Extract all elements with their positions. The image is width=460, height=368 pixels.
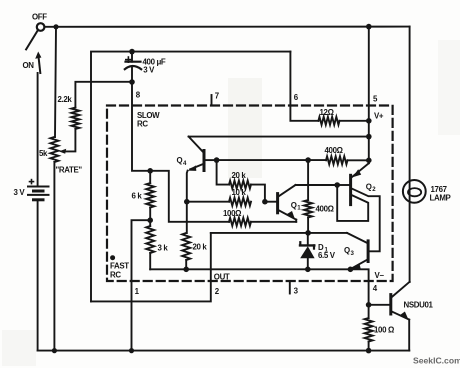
svg-text:FAST: FAST xyxy=(110,262,129,271)
wire pin8 line xyxy=(132,82,150,171)
svg-text:NSDU01: NSDU01 xyxy=(404,301,434,310)
transistor Q3 xyxy=(367,241,370,262)
wire Q4 base to 20k xyxy=(217,160,229,185)
svg-text:100 Ω: 100 Ω xyxy=(374,326,394,335)
transistor Q2 xyxy=(349,175,352,204)
node Q2 emitter xyxy=(366,158,372,164)
transistor Q4 xyxy=(203,151,206,171)
node Q4 base xyxy=(214,157,220,163)
resistor 20k horizontal xyxy=(229,181,251,189)
node Q3 emitter xyxy=(348,267,354,273)
node pin5 top rail xyxy=(366,24,372,30)
node 5k bottom rail xyxy=(52,348,57,353)
wire right column (lamp feed) xyxy=(409,27,411,282)
svg-text:20 k: 20 k xyxy=(193,243,208,252)
svg-text:12Ω: 12Ω xyxy=(320,108,334,117)
wire inner top rail xyxy=(189,136,369,138)
pin 3 stub xyxy=(289,281,291,294)
svg-text:6 k: 6 k xyxy=(132,192,143,201)
IC dashed box xyxy=(107,106,393,282)
label FAST RC xyxy=(110,255,115,260)
node D1 bottom xyxy=(305,267,311,273)
switch S1 xyxy=(37,23,45,31)
svg-text:V−: V− xyxy=(375,271,385,280)
wire junction to 5k pot xyxy=(55,27,56,137)
wire 5k bottom to rail xyxy=(53,162,55,351)
resistor 400ohm vertical xyxy=(304,200,312,218)
svg-text:400Ω: 400Ω xyxy=(325,146,343,155)
wire Q2 collector2 loop to base xyxy=(337,185,368,221)
transistor Q1 xyxy=(276,194,279,213)
svg-text:400Ω: 400Ω xyxy=(316,205,334,214)
wire pin6 line xyxy=(290,52,318,121)
wire Q2 collector1 to Q3 base xyxy=(351,188,380,251)
node pin1 rail xyxy=(129,348,134,353)
svg-text:3 V: 3 V xyxy=(14,188,26,197)
node 10k left xyxy=(184,199,190,205)
node 400ohm top xyxy=(305,157,311,163)
lamp 1767 xyxy=(403,180,426,203)
wire 2.2k top to cap node xyxy=(75,82,132,108)
resistor 5k RATE pot xyxy=(50,137,58,162)
capacitor C1 400uF xyxy=(131,52,133,62)
resistor 400ohm horizontal xyxy=(326,156,347,164)
node 6k bottom xyxy=(147,217,153,223)
wire 2.2k bottom to pot wiper xyxy=(64,129,75,151)
wire Q1 collector to Q2 base xyxy=(296,184,338,186)
svg-text:10 k: 10 k xyxy=(232,188,247,197)
node 10k right Q1 base xyxy=(262,199,268,205)
svg-text:Q: Q xyxy=(366,182,372,191)
wire NSDU01 emitter to rail xyxy=(408,320,410,351)
resistor 10k xyxy=(229,198,251,206)
svg-text:V+: V+ xyxy=(374,112,384,121)
wire bottom rail xyxy=(38,350,410,352)
wire 10k left lead xyxy=(187,201,229,203)
resistor 3k xyxy=(146,226,154,253)
svg-text:"RATE": "RATE" xyxy=(56,165,83,174)
svg-text:ON: ON xyxy=(23,61,35,70)
node NSDU01 base xyxy=(366,302,372,308)
resistor 100ohm horizontal xyxy=(229,218,251,226)
svg-text:RC: RC xyxy=(110,270,121,279)
wire 6k-top to 100ohm row xyxy=(150,171,229,222)
wire pin5 V+ column xyxy=(368,27,370,161)
svg-text:2: 2 xyxy=(372,186,376,193)
svg-text:100Ω: 100Ω xyxy=(223,209,241,218)
node 400ohm bottom D1 top xyxy=(305,230,311,236)
svg-text:OFF: OFF xyxy=(32,12,47,21)
svg-text:Q: Q xyxy=(344,246,350,255)
svg-text:Q: Q xyxy=(177,156,183,165)
node 6k top xyxy=(147,168,153,174)
pin 7 stub xyxy=(211,95,213,106)
wire battery to bottom rail xyxy=(37,200,39,351)
wire 100ohm right to Q1 emitter xyxy=(251,221,296,223)
node cap bottom xyxy=(129,79,135,85)
node 100ohm bottom rail xyxy=(366,348,372,354)
resistor 6k xyxy=(146,183,154,208)
wire Q4 emitter column xyxy=(186,171,189,233)
node cap top xyxy=(129,49,135,55)
svg-text:2.2k: 2.2k xyxy=(58,95,73,104)
wire OUT pin2 line xyxy=(91,233,211,302)
resistor 20k vertical xyxy=(182,233,190,260)
wire pin1 line xyxy=(132,220,151,350)
svg-text:6.5 V: 6.5 V xyxy=(318,251,336,260)
transistor NSDU01 xyxy=(389,295,392,314)
wire cap top node rail xyxy=(91,52,290,302)
wire base node rail xyxy=(217,159,309,161)
wire V- internal rail xyxy=(150,269,368,305)
resistor 100ohm vertical xyxy=(365,318,373,342)
wiper arrow xyxy=(59,149,66,154)
resistor 12ohm xyxy=(318,117,339,125)
svg-text:SeekIC.com: SeekIC.com xyxy=(413,356,460,366)
resistor 2.2k xyxy=(71,108,79,129)
svg-text:RC: RC xyxy=(137,120,148,129)
node 20k bottom rail xyxy=(183,267,189,273)
svg-text:Q: Q xyxy=(291,201,297,210)
node 12ohm right xyxy=(366,118,372,124)
node Q2 base xyxy=(334,182,340,188)
svg-text:20 k: 20 k xyxy=(232,171,247,180)
node switch junction xyxy=(53,24,58,29)
svg-text:3 V: 3 V xyxy=(143,66,155,75)
wire top rail xyxy=(45,26,410,28)
svg-text:1: 1 xyxy=(297,205,301,212)
svg-text:5k: 5k xyxy=(39,149,48,158)
wire Q1 emitter bend xyxy=(295,220,297,222)
zener diode D1 6.5V xyxy=(307,233,309,246)
wire 20k right to 10k right xyxy=(251,185,265,202)
node inner rail pin5 xyxy=(366,134,372,140)
svg-text:3 k: 3 k xyxy=(158,243,169,252)
battery B1 3V xyxy=(37,73,39,186)
wire D1 node row xyxy=(211,232,347,234)
svg-text:LAMP: LAMP xyxy=(430,193,451,202)
